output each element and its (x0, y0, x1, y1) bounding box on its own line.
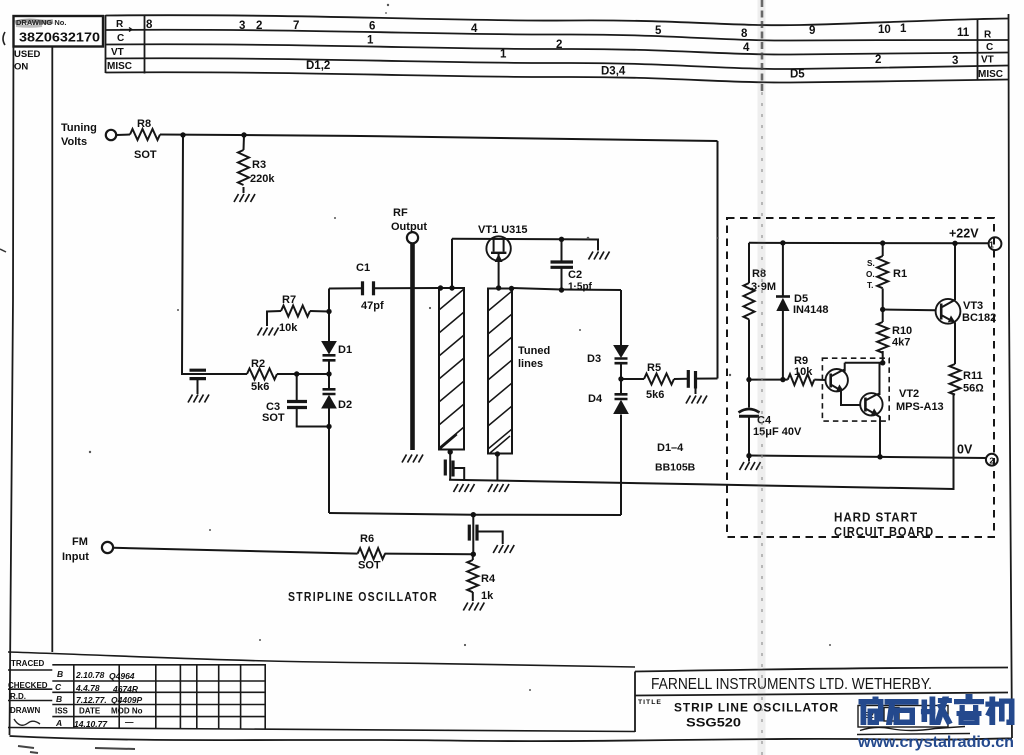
svg-text:1: 1 (500, 49, 507, 61)
svg-text:FM: FM (72, 536, 88, 548)
svg-text:ISS: ISS (55, 707, 69, 716)
svg-text:Q4964: Q4964 (109, 671, 135, 681)
svg-text:SOT: SOT (358, 560, 381, 572)
svg-text:1·5pf: 1·5pf (568, 282, 593, 293)
svg-text:R6: R6 (360, 533, 374, 545)
svg-text:C: C (55, 682, 62, 692)
svg-text:T.: T. (867, 281, 873, 290)
svg-text:Output: Output (391, 221, 427, 233)
svg-text:R11: R11 (963, 370, 983, 382)
svg-text:SSG520: SSG520 (686, 716, 741, 730)
svg-text:B: B (57, 669, 63, 679)
svg-text:2: 2 (875, 54, 881, 66)
svg-text:BC182: BC182 (962, 312, 996, 324)
svg-text:0V: 0V (957, 443, 973, 457)
svg-text:R8: R8 (137, 118, 151, 130)
svg-text:3: 3 (952, 55, 958, 67)
svg-text:R2: R2 (251, 358, 265, 370)
svg-text:2.10.78: 2.10.78 (75, 670, 105, 680)
svg-text:MOD No: MOD No (111, 707, 143, 716)
svg-text:1k: 1k (481, 590, 494, 602)
svg-text:O.: O. (866, 270, 875, 279)
svg-text:1: 1 (900, 23, 907, 35)
svg-text:MISC: MISC (978, 69, 1003, 80)
svg-text:VT3: VT3 (963, 300, 983, 312)
svg-text:ON: ON (14, 62, 28, 73)
svg-text:Input: Input (62, 551, 89, 563)
svg-text:56Ω: 56Ω (963, 383, 984, 395)
svg-text:R1: R1 (893, 268, 907, 280)
svg-text:R: R (116, 19, 124, 30)
svg-text:STRIPLINE OSCILLATOR: STRIPLINE OSCILLATOR (288, 590, 438, 604)
svg-text:10: 10 (878, 24, 891, 36)
svg-text:3: 3 (239, 20, 245, 32)
svg-text:DATE: DATE (79, 707, 101, 716)
svg-text:6: 6 (369, 21, 375, 33)
svg-text:+22V: +22V (949, 227, 979, 241)
svg-text:MPS-A13: MPS-A13 (896, 401, 944, 413)
svg-text:D1: D1 (338, 344, 352, 356)
svg-text:BB105B: BB105B (655, 462, 696, 474)
svg-text:CIRCUIT BOARD: CIRCUIT BOARD (834, 525, 934, 539)
svg-text:D1–4: D1–4 (657, 442, 684, 454)
svg-text:HARD START: HARD START (834, 511, 918, 525)
svg-text:D4: D4 (588, 393, 603, 405)
svg-text:5: 5 (655, 25, 662, 37)
svg-text:2: 2 (256, 20, 262, 32)
svg-text:4k7: 4k7 (892, 337, 910, 349)
svg-text:4.4.78: 4.4.78 (75, 683, 100, 693)
svg-text:D3,4: D3,4 (601, 66, 626, 78)
svg-text:220k: 220k (250, 173, 275, 185)
svg-text:8: 8 (146, 19, 153, 31)
svg-text:D3: D3 (587, 353, 601, 365)
svg-text:R5: R5 (647, 362, 661, 374)
svg-text:Tuning: Tuning (61, 122, 97, 134)
svg-text:C: C (117, 33, 124, 44)
svg-text:IN4148: IN4148 (793, 304, 828, 316)
svg-text:4: 4 (471, 23, 478, 35)
svg-text:—: — (124, 717, 134, 727)
svg-text:DRAWN: DRAWN (10, 706, 40, 715)
svg-text:VT: VT (981, 55, 994, 66)
svg-text:lines: lines (518, 358, 543, 370)
svg-text:D1,2: D1,2 (306, 60, 330, 72)
svg-text:1: 1 (989, 240, 994, 250)
svg-text:10k: 10k (794, 366, 813, 378)
svg-text:11: 11 (957, 27, 970, 39)
svg-text:CHECKED: CHECKED (8, 681, 48, 690)
svg-text:7: 7 (293, 20, 299, 32)
svg-text:R3: R3 (252, 159, 266, 171)
svg-text:C: C (986, 42, 993, 53)
svg-text:A: A (55, 718, 62, 728)
svg-text:VT2: VT2 (899, 388, 919, 400)
svg-text:4674R: 4674R (112, 684, 139, 694)
svg-text:7.12.77.: 7.12.77. (76, 695, 107, 705)
svg-text:USED: USED (14, 49, 41, 60)
svg-text:STRIP LINE OSCILLATOR: STRIP LINE OSCILLATOR (674, 701, 839, 715)
svg-text:www.crystalradio.cn: www.crystalradio.cn (857, 734, 1014, 751)
svg-text:38Z0632170: 38Z0632170 (19, 31, 100, 45)
svg-text:10k: 10k (279, 322, 298, 334)
svg-text:2: 2 (556, 39, 562, 51)
svg-text:14.10.77: 14.10.77 (74, 719, 108, 729)
svg-text:D5: D5 (790, 69, 805, 81)
svg-text:C1: C1 (356, 262, 370, 274)
svg-text:R.D.: R.D. (10, 692, 26, 701)
svg-text:VT: VT (111, 47, 124, 58)
svg-text:TRACED: TRACED (11, 659, 45, 668)
svg-text:9: 9 (809, 25, 815, 37)
svg-text:Tuned: Tuned (518, 345, 550, 357)
svg-text:D2: D2 (338, 399, 352, 411)
svg-text:SOT: SOT (134, 149, 157, 161)
svg-text:B: B (56, 694, 62, 704)
svg-text:5k6: 5k6 (251, 381, 269, 393)
svg-text:47pf: 47pf (361, 300, 384, 312)
svg-text:VT1 U315: VT1 U315 (478, 224, 528, 236)
svg-text:Q4409P: Q4409P (111, 695, 143, 705)
svg-text:R4: R4 (481, 573, 496, 585)
svg-text:S.: S. (867, 259, 875, 268)
svg-text:SOT: SOT (262, 412, 285, 424)
svg-text:TITLE: TITLE (638, 699, 662, 706)
svg-text:R7: R7 (282, 294, 296, 306)
svg-text:R10: R10 (892, 325, 912, 337)
svg-text:Volts: Volts (61, 136, 87, 148)
svg-text:RF: RF (393, 207, 408, 219)
svg-text:8: 8 (741, 28, 748, 40)
svg-text:5k6: 5k6 (646, 389, 664, 401)
svg-text:FARNELL INSTRUMENTS LTD. WE: FARNELL INSTRUMENTS LTD. WETHERBY. (651, 676, 932, 693)
svg-text:1: 1 (367, 35, 374, 47)
svg-text:MISC: MISC (107, 61, 132, 72)
svg-text:4: 4 (743, 42, 750, 54)
svg-text:C2: C2 (568, 269, 582, 281)
svg-text:R: R (984, 30, 992, 41)
svg-text:2: 2 (989, 455, 994, 465)
